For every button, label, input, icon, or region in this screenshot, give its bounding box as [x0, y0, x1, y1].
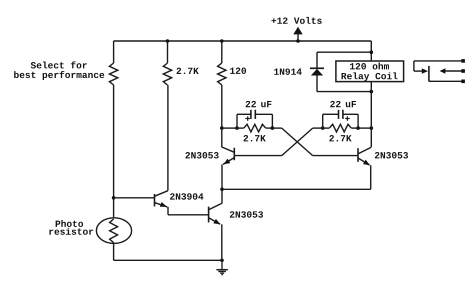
wire combo-left lead	[222, 127, 237, 129]
label C1 22 uF	[246, 101, 272, 107]
wire Q2 collector lead	[221, 128, 223, 147]
label K1 120 ohm Relay Coil	[342, 63, 398, 82]
resistor R2 2.7K	[163, 63, 171, 85]
terminal top	[461, 59, 465, 63]
label R5 2.7K	[329, 135, 351, 141]
wire bottom rail	[114, 259, 222, 261]
label Q4 2N3053	[230, 211, 263, 217]
relay contacts NC wire arrow	[440, 68, 463, 73]
node combo-left left end	[235, 126, 239, 130]
relay contacts pole bar	[428, 66, 430, 82]
node combo-right left end	[321, 126, 325, 130]
wire Q2 emitter down	[221, 164, 223, 189]
label C2 22 uF	[330, 101, 356, 107]
power +12V arrow	[293, 27, 302, 41]
relay contacts common wire	[414, 61, 463, 71]
resistor R4 2.7K left combo	[237, 124, 272, 132]
label +12 Volts	[271, 17, 321, 24]
wire Q3 collector lead	[370, 128, 372, 147]
label R3 120	[230, 68, 246, 74]
transistor Q2 2N3053 left	[222, 147, 235, 164]
node rail-R2 junction	[166, 39, 170, 43]
node rail-R3 junction	[220, 39, 224, 43]
relay contacts actuator arrow	[422, 68, 428, 73]
transistor Q1 2N3904	[155, 191, 168, 207]
wire R2 column to Q1 collector	[167, 85, 169, 191]
wire diode top branch	[317, 52, 371, 68]
label Q1 2N3904	[170, 193, 203, 199]
label R4 2.7K	[244, 135, 266, 141]
wire Q4 collector lead	[221, 189, 223, 203]
photoresistor PR1	[96, 218, 131, 244]
wire left column middle	[113, 85, 115, 218]
node ground junction	[220, 259, 224, 263]
wire right column mid	[370, 82, 372, 129]
wire R2 column top	[167, 41, 169, 63]
resistor R3 120	[218, 63, 226, 85]
label Q3 2N3053	[375, 152, 408, 158]
node right column combo junction	[370, 126, 374, 130]
wire R3 column to combo node	[221, 85, 223, 128]
wire Q1 base lead	[114, 197, 155, 199]
ground	[216, 260, 227, 274]
wire diode bottom branch	[317, 91, 371, 93]
wire Q3 emitter down	[370, 165, 372, 189]
node diode bottom junction	[370, 90, 374, 94]
node combo-right right end	[356, 126, 360, 130]
relay K1 coil box	[336, 61, 404, 82]
transistor Q3 2N3053 right	[358, 147, 371, 165]
label Photo resistor	[49, 220, 93, 235]
label Q2 2N3053	[185, 152, 218, 158]
resistor R5 2.7K right combo	[323, 124, 358, 132]
wire right column top	[370, 41, 372, 61]
wire left combo to Q3 base (cross down)	[272, 128, 358, 156]
label Select for best performance	[14, 61, 104, 80]
node left combo column junction	[220, 126, 224, 130]
capacitor C2 22uF	[323, 110, 358, 128]
wire top +12V rail	[114, 40, 372, 42]
transistor Q4 2N3053 bottom	[209, 203, 222, 224]
wire emitter rail	[222, 188, 371, 190]
wire left column top	[113, 41, 115, 63]
wire combo-right to column	[358, 127, 371, 129]
capacitor C1 22uF	[237, 110, 272, 128]
wire left column bottom	[113, 243, 115, 261]
wire R3 column top	[221, 41, 223, 63]
node Q1 base junction	[112, 196, 116, 200]
wire Q4 emitter down	[221, 224, 223, 260]
terminal bottom	[461, 80, 465, 84]
label R2 2.7K	[177, 68, 199, 74]
node emitter rail junction	[220, 188, 224, 192]
relay contacts NO wire	[429, 80, 463, 82]
terminal middle	[461, 69, 465, 73]
node combo-left right end	[271, 126, 275, 130]
diode D1 1N914	[310, 68, 324, 91]
wire Q2 base to right combo (cross up)	[234, 128, 322, 156]
label D1 1N914	[274, 68, 302, 74]
node diode top junction	[370, 50, 374, 54]
node +12V rail junction	[296, 39, 300, 43]
wire Q1 emitter to Q4 base	[168, 207, 209, 215]
resistor R1 select-for-best-performance	[109, 63, 117, 85]
